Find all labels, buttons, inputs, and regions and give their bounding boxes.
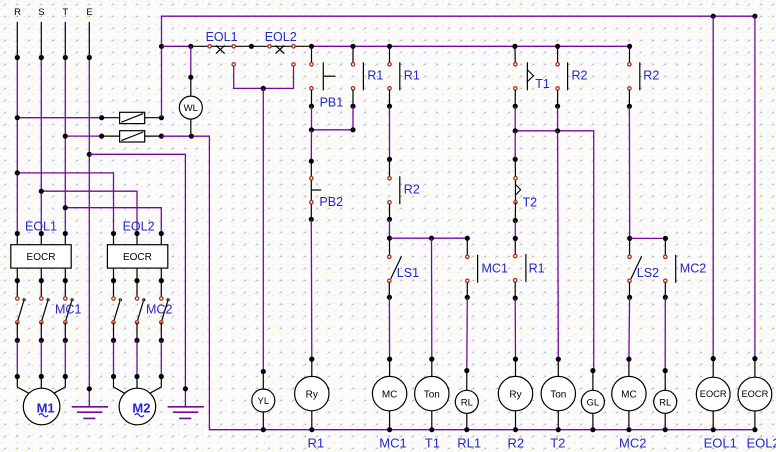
wire LS2 to contactor coil MC2 — [626, 297, 631, 361]
label R2 (rung2 top) — [572, 69, 588, 83]
label R1 (seal-in) — [367, 69, 383, 83]
contact R1 (seal-in) — [350, 62, 363, 108]
label PB2 — [319, 195, 343, 209]
wire earth branch to ground G2 — [89, 154, 188, 406]
svg-text:E: E — [86, 7, 92, 18]
contactor MC2 main contact pole 3 — [159, 281, 170, 343]
svg-text:Ry: Ry — [306, 389, 318, 400]
svg-text:LS1: LS1 — [397, 266, 419, 280]
wire to PB2 — [309, 130, 314, 164]
svg-text:R1: R1 — [308, 435, 325, 450]
svg-text:EOCR: EOCR — [741, 389, 768, 399]
label R1 (branch2) — [404, 69, 420, 83]
contact MC1 aux stub — [466, 238, 468, 257]
wire MC1 to motor M1 pole 1 — [15, 340, 29, 393]
wire to timed contact T2 — [513, 131, 518, 162]
overload relay EOL2 (EOCR box) — [107, 231, 167, 283]
svg-text:R1: R1 — [367, 69, 383, 83]
wire EOL trip contacts to lamp YL — [234, 66, 294, 374]
label PB1 — [320, 96, 344, 110]
label LS1 — [397, 266, 419, 280]
svg-text:YL: YL — [257, 396, 269, 407]
svg-text:EOCR: EOCR — [123, 252, 152, 263]
wire lamp rail left — [161, 134, 755, 430]
svg-text:RL: RL — [659, 397, 671, 408]
svg-text:R2: R2 — [643, 69, 659, 83]
lamp GL — [581, 368, 604, 432]
wire phase T vertical — [63, 22, 68, 234]
svg-text:R1: R1 — [404, 69, 420, 83]
wire PB1/R1 parallel join — [309, 106, 356, 132]
contactor MC1 main contact pole 1 — [15, 281, 26, 343]
wire MC2 rung header — [627, 106, 668, 241]
contact R2 (rung2 top) — [555, 62, 568, 108]
svg-text:WL: WL — [184, 103, 198, 114]
timed contact T2 (NC) — [513, 159, 521, 223]
label T1 (coil) — [425, 435, 440, 450]
label LS2 — [637, 266, 659, 280]
svg-text:MC2: MC2 — [146, 303, 172, 317]
lamp YL (EOL trip indicator) — [252, 372, 275, 433]
label R1 (coil) — [308, 435, 325, 450]
node R (phase label) — [14, 7, 21, 18]
svg-text:EOL2: EOL2 — [747, 435, 776, 450]
contactor coil MC2 — [612, 359, 646, 432]
svg-text:S: S — [38, 7, 44, 18]
overload relay EOL1 label — [25, 220, 57, 234]
overload contact EOL2 label (top) — [265, 30, 297, 44]
contactor MC2 main contact pole 1 — [111, 281, 122, 343]
wire MC2 to motor M2 pole 1 — [111, 340, 125, 393]
svg-text:MC: MC — [382, 389, 398, 400]
contactor MC1 main contact pole 3 — [63, 281, 73, 343]
label MC2 (aux contact) — [680, 261, 706, 275]
pushbutton PB1 (NO start) — [309, 62, 336, 108]
svg-text:GL: GL — [587, 397, 600, 408]
overload contact EOL1 — [208, 45, 235, 67]
svg-text:MC2: MC2 — [680, 261, 706, 275]
wire phase R vertical — [15, 22, 20, 234]
label T2 (contact) — [523, 195, 538, 209]
svg-text:PB1: PB1 — [320, 96, 344, 110]
svg-text:EOCR: EOCR — [700, 389, 727, 399]
overload contact EOL2 — [268, 45, 295, 67]
svg-text:EOL2: EOL2 — [265, 30, 297, 44]
svg-text:T1: T1 — [535, 77, 550, 91]
wire EOCR2 feed from R — [15, 170, 114, 233]
svg-text:MC2: MC2 — [619, 435, 646, 450]
contactor coil MC1 — [372, 359, 406, 432]
label R1 (in Ry2 rung) — [529, 261, 545, 275]
pushbutton PB2 (NC stop) — [309, 161, 322, 222]
wire to EOCR coil 2 — [752, 16, 757, 361]
fuse F1 — [99, 112, 164, 123]
svg-text:EOL1: EOL1 — [206, 30, 238, 44]
label MC1 (aux contact) — [482, 261, 508, 275]
wire earth E vertical — [87, 22, 92, 407]
wire fuse F2 feed from T — [63, 134, 102, 139]
wire control bus — [159, 44, 632, 49]
wire EOCR2 feed from T — [63, 205, 162, 233]
svg-text:RL: RL — [461, 397, 473, 408]
wire T1/R2 join rung2 — [513, 106, 594, 370]
contact R1 branch2 stub — [389, 46, 391, 64]
wire MC2 aux to lamp RL2 — [663, 297, 668, 373]
svg-text:M2: M2 — [132, 400, 150, 415]
wire to EOCR coil 1 — [711, 16, 716, 361]
svg-text:R2: R2 — [404, 183, 420, 197]
wire fuse F1 feed from R — [15, 115, 102, 120]
overload contact EOL1 label (top) — [206, 30, 238, 44]
svg-text:PB2: PB2 — [319, 195, 343, 209]
label T1 (contact) — [535, 77, 550, 91]
wire phase S vertical — [39, 22, 44, 234]
svg-text:Ry: Ry — [509, 389, 521, 400]
motor M2 — [119, 388, 156, 425]
timed contact T1 stub — [514, 46, 516, 64]
limit switch LS2 — [627, 238, 642, 300]
wire MC1 to motor M1 pole 2 — [39, 340, 44, 388]
label T2 (coil) — [550, 435, 565, 450]
svg-text:M1: M1 — [37, 400, 55, 415]
label MC2 (coil) — [619, 435, 646, 450]
fuse F2 — [99, 131, 164, 142]
wire to timer coil Ton2 — [556, 131, 561, 362]
wire MC1 aux to lamp RL1 — [464, 297, 469, 373]
node T (phase label) — [62, 7, 68, 18]
node S (phase label) — [38, 7, 44, 18]
label RL1 — [457, 435, 481, 450]
label MC2 (main contacts) — [146, 303, 172, 317]
wire MC2 to motor M2 pole 2 — [134, 340, 139, 388]
svg-text:MC1: MC1 — [482, 261, 508, 275]
timed contact T1 (NO) — [513, 62, 534, 108]
motor M1 — [23, 388, 60, 425]
contact R2 branch stub — [557, 46, 559, 64]
overload relay EOL1 (EOCR box) — [11, 231, 71, 283]
contact R1 (in Ry2 rung) — [513, 238, 526, 300]
svg-text:MC1: MC1 — [379, 435, 406, 450]
contact R2 (in MC1 rung) — [387, 159, 400, 222]
contact MC1 (aux, to RL1) — [465, 255, 478, 300]
label MC1 (coil) — [379, 435, 406, 450]
svg-text:RL1: RL1 — [457, 435, 481, 450]
wire MC1 rung header — [387, 219, 470, 240]
node E (earth label) — [86, 7, 92, 18]
svg-text:T2: T2 — [550, 435, 565, 450]
svg-text:R2: R2 — [508, 435, 525, 450]
svg-text:LS2: LS2 — [637, 266, 659, 280]
relay coil Ry2 — [498, 359, 532, 432]
wire R1 to R2 contact — [387, 106, 392, 162]
lamp RL2 — [654, 371, 677, 433]
contact R1 seal-in stub — [352, 46, 354, 64]
svg-text:T1: T1 — [425, 435, 440, 450]
pushbutton PB1 branch stub — [311, 46, 313, 64]
limit switch LS1 — [387, 238, 402, 300]
wire top rail L1 — [162, 14, 758, 118]
svg-text:Ton: Ton — [424, 389, 440, 400]
label EOL1 (coil) — [704, 435, 737, 450]
wire MC2 to motor M2 pole 3 — [150, 340, 164, 393]
label R2 (MC2 rung) — [643, 69, 659, 83]
wire T2 to R1 contact — [513, 221, 518, 241]
label R2 (coil) — [508, 435, 525, 450]
lamp RL1 — [455, 371, 478, 433]
timer coil Ton1 — [415, 359, 449, 432]
contact R2 (MC2 rung) — [627, 62, 640, 109]
svg-text:T2: T2 — [523, 195, 538, 209]
wire WL branch — [188, 46, 193, 79]
wire EOCR2 feed from S — [39, 189, 137, 234]
svg-text:R2: R2 — [572, 69, 588, 83]
ground G2 — [168, 407, 204, 419]
wire LS1 to contactor coil MC1 — [387, 297, 392, 361]
svg-text:MC1: MC1 — [55, 303, 81, 317]
label EOL2 (coil) — [747, 435, 776, 450]
ground G1 — [72, 407, 108, 419]
contact MC2 aux stub — [664, 238, 666, 256]
contactor MC2 main contact pole 2 — [134, 281, 145, 343]
wire to relay coil Ry2 — [513, 298, 518, 362]
svg-text:EOL1: EOL1 — [704, 435, 737, 450]
overload relay EOL2 label — [123, 220, 155, 234]
timer coil Ton2 — [541, 359, 575, 432]
contact R1 (to R2 rung) — [387, 62, 400, 108]
lamp WL — [179, 77, 202, 136]
svg-text:EOCR: EOCR — [27, 252, 56, 263]
contact R2 far-right stub — [628, 46, 630, 64]
contact MC2 (aux, to RL2) — [663, 255, 676, 300]
svg-text:MC: MC — [621, 389, 637, 400]
EOCR coil 1 — [696, 359, 730, 433]
wire MC1 to motor M1 pole 3 — [54, 340, 68, 393]
svg-text:T: T — [62, 7, 68, 18]
relay coil Ry1 — [295, 359, 329, 432]
label R2 (in MC1 rung) — [404, 183, 420, 197]
wire PB2 to relay coil Ry1 — [309, 219, 314, 361]
svg-text:R1: R1 — [529, 261, 545, 275]
label MC1 (main contacts) — [55, 303, 81, 317]
wire to timer coil Ton1 — [429, 238, 434, 362]
svg-text:R: R — [14, 7, 21, 18]
contactor MC1 main contact pole 2 — [39, 281, 50, 343]
EOCR coil 2 — [738, 359, 772, 433]
svg-text:Ton: Ton — [550, 389, 566, 400]
